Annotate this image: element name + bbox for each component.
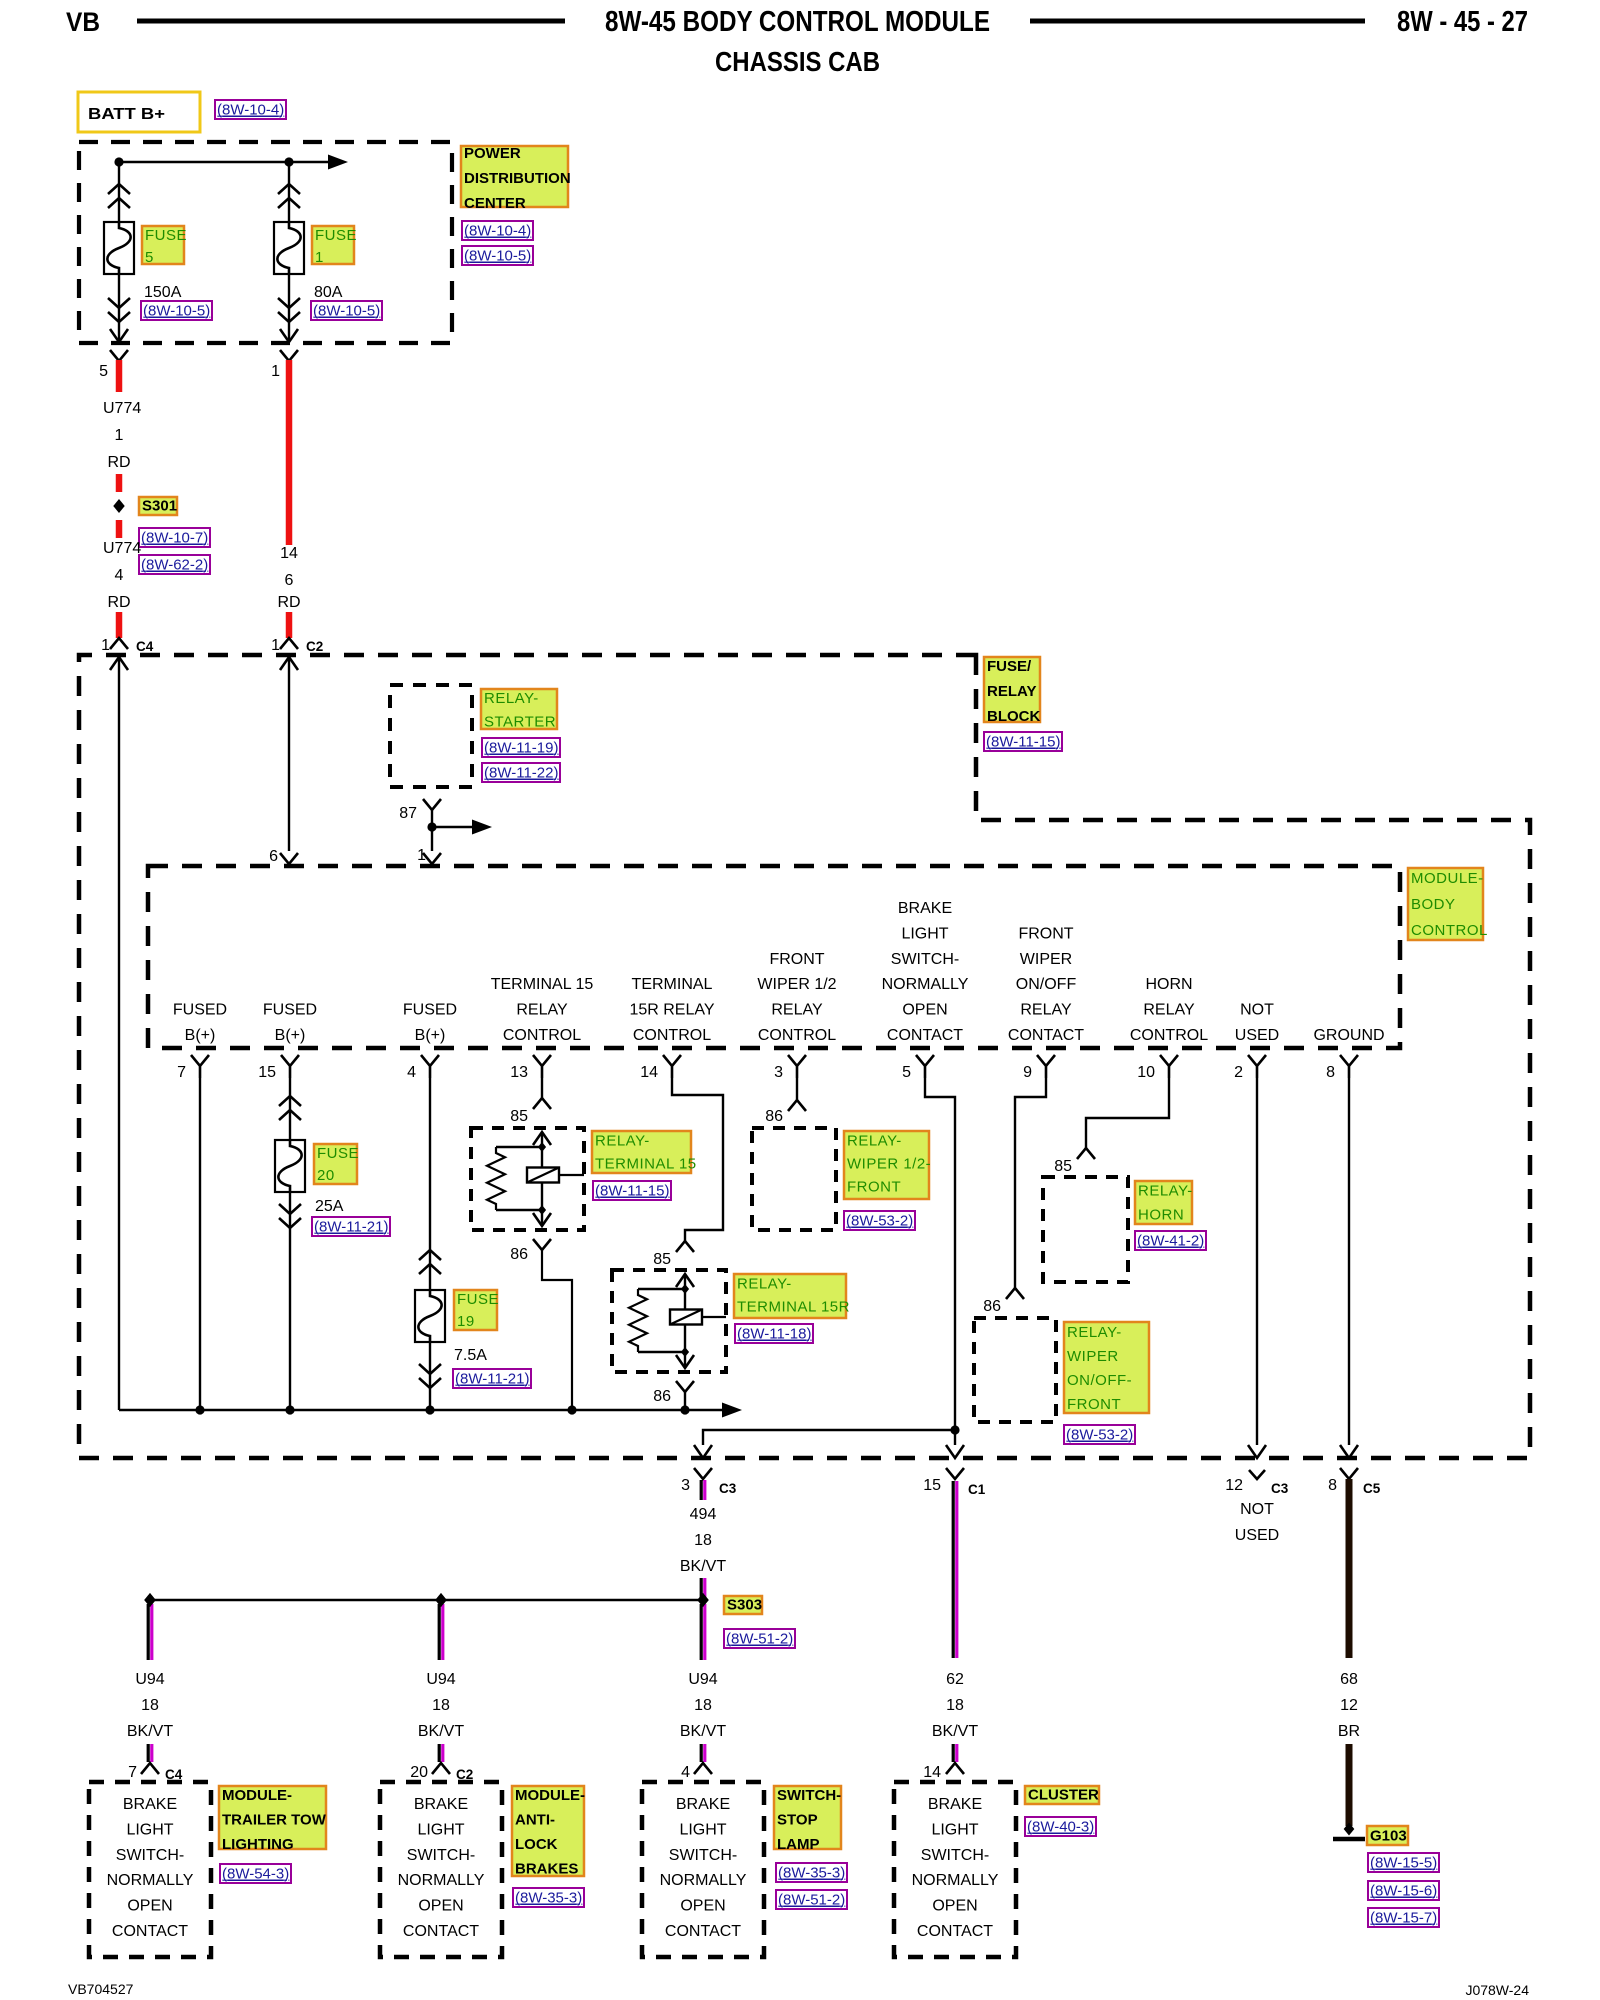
- svg-text:RELAY-: RELAY-: [1138, 1183, 1193, 1200]
- relay K-starter box: [390, 685, 472, 787]
- svg-text:RELAY-: RELAY-: [595, 1133, 650, 1150]
- svg-text:68: 68: [1340, 1671, 1358, 1688]
- svg-text:RD: RD: [107, 594, 130, 611]
- wire fuse 1 branch: [288, 162, 290, 341]
- svg-text:BK/VT: BK/VT: [680, 1723, 726, 1740]
- node junction at fuse 5 feed: [114, 157, 123, 166]
- svg-text:FUSED: FUSED: [263, 1002, 317, 1019]
- svg-text:BK/VT: BK/VT: [418, 1723, 464, 1740]
- brake light switch contact box at x=150: [89, 1782, 211, 1957]
- svg-text:7.5A: 7.5A: [454, 1347, 487, 1364]
- svg-text:CENTER: CENTER: [464, 195, 526, 212]
- svg-text:C2: C2: [306, 639, 323, 654]
- svg-text:FRONT: FRONT: [1067, 1396, 1121, 1413]
- svg-text:C3: C3: [1271, 1481, 1289, 1496]
- svg-text:HORN: HORN: [1138, 1207, 1184, 1224]
- wire 68 12 BR ground wire: [1346, 1479, 1353, 1658]
- svg-text:VB: VB: [66, 7, 100, 37]
- svg-text:LIGHT: LIGHT: [931, 1821, 978, 1838]
- svg-text:494: 494: [690, 1506, 717, 1523]
- svg-text:RD: RD: [277, 594, 300, 611]
- wire pin 10 to relay horn pin 85: [1086, 1078, 1169, 1148]
- link 8W-10-5: [462, 246, 533, 265]
- fuse/relay block label: [984, 657, 1040, 722]
- brake light switch contact box at x=703: [642, 1782, 764, 1957]
- wire bus inside PDC: [119, 161, 330, 163]
- svg-text:LIGHTING: LIGHTING: [222, 1836, 294, 1853]
- svg-text:87: 87: [399, 805, 417, 822]
- fuse F1 label: [312, 226, 354, 264]
- svg-text:TRAILER TOW: TRAILER TOW: [222, 1812, 327, 1829]
- svg-text:LIGHT: LIGHT: [126, 1821, 173, 1838]
- svg-text:FUSE: FUSE: [315, 227, 357, 244]
- svg-text:5: 5: [902, 1064, 911, 1081]
- link 8W-54-3: [220, 1864, 291, 1883]
- svg-text:RELAY-: RELAY-: [847, 1133, 902, 1150]
- svg-text:RD: RD: [107, 454, 130, 471]
- wire pin 9 to relay wiper on/off pin 86: [1015, 1078, 1046, 1288]
- link 8W-51-2: [724, 1629, 795, 1648]
- link 8W-11-18: [735, 1324, 813, 1343]
- svg-text:1: 1: [115, 427, 124, 444]
- svg-text:CONTACT: CONTACT: [403, 1923, 479, 1940]
- svg-text:CONTACT: CONTACT: [112, 1923, 188, 1940]
- ground bus wire y1410: [119, 1409, 722, 1411]
- svg-text:SWITCH-: SWITCH-: [921, 1847, 989, 1864]
- wire U774 4 RD red segment: [116, 612, 123, 638]
- svg-text:LIGHT: LIGHT: [901, 925, 948, 942]
- svg-text:BR: BR: [1338, 1723, 1360, 1740]
- svg-text:NORMALLY: NORMALLY: [660, 1872, 747, 1889]
- brake light switch contact box at x=441: [380, 1782, 502, 1957]
- relay K-wiper-on/off-front box: [974, 1318, 1056, 1422]
- svg-text:CONTACT: CONTACT: [887, 1027, 963, 1044]
- svg-text:14: 14: [280, 545, 298, 562]
- svg-text:MODULE-: MODULE-: [515, 1787, 585, 1804]
- svg-text:85: 85: [510, 1108, 528, 1125]
- wire pin 3 to relay wiper 1/2 pin 86: [796, 1078, 798, 1100]
- relay horn label: [1135, 1181, 1192, 1224]
- svg-text:BRAKE: BRAKE: [928, 1796, 982, 1813]
- svg-text:NOT: NOT: [1240, 1501, 1274, 1518]
- svg-text:NORMALLY: NORMALLY: [882, 976, 969, 993]
- link 8W-35-3: [776, 1863, 847, 1882]
- svg-text:S301: S301: [142, 498, 177, 515]
- link 8W-10-4: [462, 221, 533, 240]
- wire U774 1 RD red segment: [116, 360, 123, 392]
- svg-text:OPEN: OPEN: [932, 1898, 977, 1915]
- splice S303 diamond left: [144, 1593, 155, 1607]
- svg-text:NORMALLY: NORMALLY: [398, 1872, 485, 1889]
- svg-text:CONTACT: CONTACT: [665, 1923, 741, 1940]
- link 8W-11-21: [453, 1369, 531, 1388]
- svg-text:FUSE: FUSE: [145, 227, 187, 244]
- svg-text:B(+): B(+): [185, 1027, 216, 1044]
- module trailer tow lighting label: [219, 1786, 326, 1849]
- link 8W-15-5: [1368, 1853, 1439, 1872]
- link 8W-11-15: [593, 1181, 671, 1200]
- svg-text:FUSE: FUSE: [457, 1291, 499, 1308]
- svg-text:WIPER 1/2-: WIPER 1/2-: [847, 1156, 931, 1173]
- svg-text:HORN: HORN: [1145, 976, 1192, 993]
- svg-text:LIGHT: LIGHT: [679, 1821, 726, 1838]
- svg-text:CONTACT: CONTACT: [1008, 1027, 1084, 1044]
- svg-text:LAMP: LAMP: [777, 1836, 820, 1853]
- wire pin 13 to relay terminal 15 pin 85: [541, 1078, 543, 1098]
- link 8W-53-2: [844, 1211, 915, 1230]
- svg-text:WIPER: WIPER: [1067, 1348, 1119, 1365]
- svg-text:6: 6: [285, 572, 294, 589]
- svg-text:B(+): B(+): [415, 1027, 446, 1044]
- svg-text:25A: 25A: [315, 1198, 344, 1215]
- power distribution center label: [461, 146, 568, 207]
- svg-text:CLUSTER: CLUSTER: [1028, 1787, 1099, 1804]
- svg-text:BK/VT: BK/VT: [680, 1558, 726, 1575]
- svg-text:U94: U94: [426, 1671, 455, 1688]
- wire pin 14 to relay terminal 15R: [672, 1078, 723, 1241]
- svg-text:SWITCH-: SWITCH-: [777, 1787, 841, 1804]
- svg-text:4: 4: [407, 1064, 416, 1081]
- svg-text:MODULE-: MODULE-: [222, 1787, 292, 1804]
- link 8W-53-2: [1064, 1425, 1135, 1444]
- relay starter label: [481, 689, 557, 729]
- svg-text:12: 12: [1225, 1477, 1243, 1494]
- svg-text:9: 9: [1023, 1064, 1032, 1081]
- relay K-terminal-15: [471, 1128, 584, 1230]
- svg-text:ANTI-: ANTI-: [515, 1812, 555, 1829]
- svg-text:SWITCH-: SWITCH-: [669, 1847, 737, 1864]
- svg-text:19: 19: [457, 1313, 475, 1330]
- svg-text:MODULE-: MODULE-: [1411, 870, 1484, 887]
- svg-text:G103: G103: [1370, 1828, 1407, 1845]
- svg-text:2: 2: [1234, 1064, 1243, 1081]
- module anti-lock brakes label: [512, 1786, 584, 1876]
- fuse/relay block box: [79, 655, 1530, 1458]
- node bus junction fuse20: [285, 1405, 294, 1414]
- svg-text:USED: USED: [1235, 1527, 1279, 1544]
- svg-text:BLOCK: BLOCK: [987, 708, 1040, 725]
- svg-text:CONTACT: CONTACT: [917, 1923, 993, 1940]
- svg-text:CONTROL: CONTROL: [503, 1027, 581, 1044]
- svg-text:RELAY: RELAY: [987, 683, 1036, 700]
- svg-text:3: 3: [681, 1477, 690, 1494]
- svg-text:ON/OFF: ON/OFF: [1016, 976, 1077, 993]
- svg-text:RELAY: RELAY: [1020, 1002, 1072, 1019]
- link 8W-10-4: [215, 100, 286, 119]
- svg-text:5: 5: [145, 249, 154, 266]
- svg-text:1: 1: [271, 363, 280, 380]
- svg-text:B(+): B(+): [275, 1027, 306, 1044]
- svg-text:LIGHT: LIGHT: [417, 1821, 464, 1838]
- svg-text:OPEN: OPEN: [902, 1002, 947, 1019]
- svg-text:RELAY: RELAY: [1143, 1002, 1195, 1019]
- svg-text:7: 7: [128, 1764, 137, 1781]
- svg-text:BK/VT: BK/VT: [127, 1723, 173, 1740]
- svg-text:86: 86: [983, 1298, 1001, 1315]
- node junction at brake light branch: [950, 1425, 959, 1434]
- wire pin 5 to connectors C1 C3: [925, 1078, 955, 1445]
- svg-text:8W - 45 - 27: 8W - 45 - 27: [1397, 6, 1528, 38]
- fuse F20: [275, 1140, 305, 1192]
- brake light switch contact box at x=955: [894, 1782, 1016, 1957]
- svg-text:TERMINAL 15: TERMINAL 15: [595, 1156, 697, 1173]
- svg-text:CONTROL: CONTROL: [1411, 922, 1488, 939]
- svg-text:86: 86: [510, 1246, 528, 1263]
- svg-text:RELAY-: RELAY-: [484, 690, 539, 707]
- wire U94 18 BK/VT at x=150: [147, 1604, 150, 1660]
- node bus junction relay15R: [680, 1405, 689, 1414]
- svg-text:85: 85: [653, 1251, 671, 1268]
- switch stop lamp label: [774, 1786, 841, 1849]
- svg-text:OPEN: OPEN: [680, 1898, 725, 1915]
- svg-text:86: 86: [765, 1108, 783, 1125]
- svg-text:15: 15: [923, 1477, 941, 1494]
- svg-text:U94: U94: [688, 1671, 717, 1688]
- relay K-wiper-1/2-front box: [752, 1128, 836, 1230]
- svg-text:SWITCH-: SWITCH-: [407, 1847, 475, 1864]
- svg-text:BRAKE: BRAKE: [898, 900, 952, 917]
- fuse F19 label: [454, 1290, 497, 1330]
- ground G103 label: [1367, 1826, 1408, 1845]
- svg-text:1: 1: [101, 637, 110, 654]
- svg-text:ON/OFF-: ON/OFF-: [1067, 1372, 1132, 1389]
- svg-text:1: 1: [271, 637, 280, 654]
- svg-text:CONTROL: CONTROL: [633, 1027, 711, 1044]
- svg-text:USED: USED: [1235, 1027, 1279, 1044]
- wire red dash below splice: [116, 520, 123, 538]
- svg-text:18: 18: [432, 1697, 450, 1714]
- svg-text:BODY: BODY: [1411, 896, 1456, 913]
- svg-text:TERMINAL: TERMINAL: [632, 976, 713, 993]
- svg-text:J078W-24: J078W-24: [1465, 1982, 1529, 1998]
- svg-text:8: 8: [1328, 1477, 1337, 1494]
- svg-text:86: 86: [653, 1388, 671, 1405]
- svg-text:C3: C3: [719, 1481, 737, 1496]
- svg-text:18: 18: [694, 1697, 712, 1714]
- svg-text:5: 5: [99, 363, 108, 380]
- wire pin 8 ground: [1348, 1078, 1350, 1445]
- svg-text:8: 8: [1326, 1064, 1335, 1081]
- module body control box: [148, 866, 1400, 1048]
- svg-text:RELAY: RELAY: [771, 1002, 823, 1019]
- node junction under relay starter: [427, 822, 436, 831]
- svg-text:CHASSIS CAB: CHASSIS CAB: [715, 46, 880, 77]
- svg-text:RELAY: RELAY: [516, 1002, 568, 1019]
- svg-text:BRAKE: BRAKE: [123, 1796, 177, 1813]
- wire pin 15 to fuse 20: [289, 1078, 291, 1410]
- svg-text:4: 4: [681, 1764, 690, 1781]
- wire pin87 to junction: [431, 810, 433, 851]
- svg-text:6: 6: [269, 848, 278, 865]
- splice S303 diamond middle: [435, 1593, 446, 1607]
- svg-text:U94: U94: [135, 1671, 164, 1688]
- svg-text:BATT B+: BATT B+: [88, 106, 165, 123]
- svg-text:C5: C5: [1363, 1481, 1381, 1496]
- svg-text:SWITCH-: SWITCH-: [116, 1847, 184, 1864]
- relay terminal 15 label: [592, 1131, 691, 1173]
- wire pin 4 to fuse 19: [429, 1078, 431, 1410]
- power distribution center box: [79, 142, 452, 343]
- wire U94 18 BK/VT at x=703: [700, 1604, 703, 1660]
- svg-text:BK/VT: BK/VT: [932, 1723, 978, 1740]
- svg-text:SWITCH-: SWITCH-: [891, 951, 959, 968]
- node bus junction pin7: [195, 1405, 204, 1414]
- svg-text:8W-45 BODY CONTROL MODULE: 8W-45 BODY CONTROL MODULE: [605, 6, 990, 38]
- link 8W-15-7: [1368, 1908, 1439, 1927]
- wire BK/VT to splice S303: [700, 1578, 703, 1600]
- svg-text:CONTROL: CONTROL: [1130, 1027, 1208, 1044]
- fuse F5: [104, 222, 134, 274]
- wire 62 18 BK/VT: [952, 1481, 955, 1658]
- svg-text:BRAKES: BRAKES: [515, 1861, 578, 1878]
- link 8W-10-5: [311, 301, 382, 320]
- svg-text:TERMINAL 15R: TERMINAL 15R: [737, 1299, 850, 1316]
- node junction at fuse 1 feed: [284, 157, 293, 166]
- svg-text:FRONT: FRONT: [1018, 925, 1073, 942]
- link 8W-41-2: [1135, 1231, 1206, 1250]
- relay K-horn box: [1043, 1177, 1128, 1282]
- link 8W-51-2: [776, 1890, 847, 1909]
- link 8W-11-21: [312, 1217, 390, 1236]
- svg-text:20: 20: [317, 1167, 335, 1184]
- wire from C2 down to module pin 6: [280, 657, 298, 670]
- svg-text:CONTROL: CONTROL: [758, 1027, 836, 1044]
- fuse F5 label: [142, 226, 184, 264]
- relay wiper 1/2 front label: [844, 1131, 929, 1199]
- svg-text:OPEN: OPEN: [127, 1898, 172, 1915]
- relay K-terminal-15R: [612, 1270, 726, 1372]
- svg-text:20: 20: [410, 1764, 428, 1781]
- svg-text:150A: 150A: [144, 284, 182, 301]
- svg-text:85: 85: [1054, 1158, 1072, 1175]
- wire 14 6 RD red segment: [286, 360, 293, 545]
- module body control label: [1408, 868, 1483, 940]
- svg-text:FUSE: FUSE: [317, 1145, 359, 1162]
- svg-text:FRONT: FRONT: [769, 951, 824, 968]
- link 8W-10-5: [141, 301, 212, 320]
- link 8W-15-6: [1368, 1881, 1439, 1900]
- svg-text:1: 1: [315, 249, 324, 266]
- svg-text:FUSE/: FUSE/: [987, 658, 1032, 675]
- svg-text:LOCK: LOCK: [515, 1836, 558, 1853]
- svg-text:GROUND: GROUND: [1313, 1027, 1384, 1044]
- svg-text:STARTER: STARTER: [484, 714, 556, 731]
- svg-text:BRAKE: BRAKE: [676, 1796, 730, 1813]
- svg-text:C4: C4: [136, 639, 154, 654]
- node bus junction relay15: [567, 1405, 576, 1414]
- wire U94 18 BK/VT at x=441: [438, 1604, 441, 1660]
- splice S301 label: [139, 497, 177, 515]
- svg-text:4: 4: [115, 567, 124, 584]
- svg-text:FRONT: FRONT: [847, 1179, 901, 1196]
- svg-text:NORMALLY: NORMALLY: [912, 1872, 999, 1889]
- wire from C4 down to bus: [110, 657, 128, 670]
- svg-text:18: 18: [141, 1697, 159, 1714]
- splice S303 junction diamonds redraw on top: [144, 1593, 155, 1607]
- svg-text:FUSED: FUSED: [403, 1002, 457, 1019]
- battery feed BATT B+: [78, 92, 200, 132]
- relay terminal 15R label: [734, 1274, 846, 1318]
- svg-text:OPEN: OPEN: [418, 1898, 463, 1915]
- svg-text:VB704527: VB704527: [68, 1981, 134, 1997]
- svg-text:STOP: STOP: [777, 1812, 818, 1829]
- svg-text:14: 14: [923, 1764, 941, 1781]
- svg-text:3: 3: [774, 1064, 783, 1081]
- fuse F19: [415, 1290, 445, 1342]
- cluster label: [1025, 1786, 1099, 1804]
- svg-text:RELAY-: RELAY-: [737, 1276, 792, 1293]
- link 8W-11-22: [482, 763, 560, 782]
- svg-text:POWER: POWER: [464, 145, 521, 162]
- svg-text:WIPER: WIPER: [1020, 951, 1072, 968]
- svg-text:12: 12: [1340, 1697, 1358, 1714]
- svg-text:WIPER 1/2: WIPER 1/2: [757, 976, 836, 993]
- splice S303 label: [724, 1596, 762, 1614]
- svg-text:18: 18: [694, 1532, 712, 1549]
- svg-text:18: 18: [946, 1697, 964, 1714]
- svg-text:13: 13: [510, 1064, 528, 1081]
- node bus junction fuse19: [425, 1405, 434, 1414]
- svg-text:NORMALLY: NORMALLY: [107, 1872, 194, 1889]
- svg-text:15R RELAY: 15R RELAY: [629, 1002, 714, 1019]
- link 8W-35-3: [513, 1888, 584, 1907]
- splice S303 bus: [150, 1599, 703, 1601]
- svg-text:U774: U774: [103, 400, 141, 417]
- svg-text:10: 10: [1137, 1064, 1155, 1081]
- svg-text:NOT: NOT: [1240, 1002, 1274, 1019]
- link 8W-10-7: [139, 528, 210, 547]
- svg-text:RELAY-: RELAY-: [1067, 1324, 1122, 1341]
- svg-text:DISTRIBUTION: DISTRIBUTION: [464, 170, 571, 187]
- svg-text:15: 15: [258, 1064, 276, 1081]
- svg-text:FUSED: FUSED: [173, 1002, 227, 1019]
- svg-text:80A: 80A: [314, 284, 343, 301]
- wire red dash above splice: [116, 474, 123, 492]
- svg-text:BRAKE: BRAKE: [414, 1796, 468, 1813]
- splice S301: [113, 499, 124, 513]
- relay wiper on/off front label: [1064, 1322, 1149, 1413]
- wire branch to C3: [703, 1430, 955, 1445]
- link 8W-11-15: [984, 732, 1062, 751]
- wire fuse 5 branch: [118, 162, 120, 341]
- svg-text:62: 62: [946, 1671, 964, 1688]
- link 8W-11-19: [482, 738, 560, 757]
- svg-text:7: 7: [177, 1064, 186, 1081]
- fuse F20 label: [314, 1144, 357, 1184]
- svg-text:S303: S303: [727, 1597, 762, 1614]
- svg-text:U774: U774: [103, 540, 141, 557]
- ground G103: [1344, 1823, 1355, 1836]
- link 8W-40-3: [1025, 1817, 1096, 1836]
- svg-text:14: 14: [640, 1064, 658, 1081]
- wire pin 7 to bus: [199, 1078, 201, 1410]
- svg-text:TERMINAL 15: TERMINAL 15: [491, 976, 594, 993]
- wire arrow to right: [432, 826, 474, 828]
- wire pin 2 not used: [1256, 1078, 1258, 1445]
- fuse F1: [274, 222, 304, 274]
- link 8W-62-2: [139, 555, 210, 574]
- svg-text:C1: C1: [968, 1482, 986, 1497]
- splice S303 diamond right: [697, 1593, 708, 1607]
